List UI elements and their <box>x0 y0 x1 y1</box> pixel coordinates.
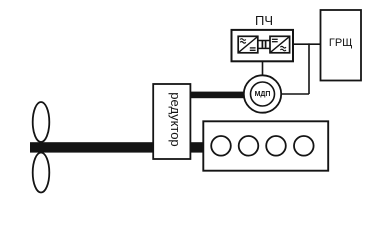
propeller blade upper <box>33 102 50 142</box>
inverter DC/AC <box>270 36 290 53</box>
propeller blade lower <box>33 153 50 193</box>
frequency converter ПЧ box <box>232 30 294 61</box>
svg-text:ГРЩ: ГРЩ <box>329 37 353 49</box>
propeller shaft <box>30 142 154 152</box>
engine cylinder 3 <box>266 136 286 156</box>
wire МДП to branch (horizontal) <box>281 93 309 95</box>
shaft gearbox to motor MDP <box>190 92 244 99</box>
rectifier AC/DC <box>238 36 258 53</box>
engine cylinder 2 <box>239 136 259 156</box>
wire branch vertical to ГРЩ feeder <box>308 43 310 94</box>
wire ПЧ to МДП <box>262 61 264 76</box>
main switchboard ГРЩ <box>321 10 362 81</box>
gearbox редуктор <box>153 84 190 159</box>
shaft gearbox to engine <box>190 142 204 152</box>
engine <box>203 121 328 170</box>
svg-text:ПЧ: ПЧ <box>255 13 273 28</box>
engine cylinder 1 <box>211 136 231 156</box>
svg-text:редуктор: редуктор <box>168 92 183 146</box>
wire ПЧ to ГРЩ <box>293 43 321 45</box>
motor МДП <box>244 75 281 112</box>
DC link capacitor plates <box>262 41 265 48</box>
svg-text:МДП: МДП <box>255 91 271 98</box>
engine cylinder 4 <box>294 136 314 156</box>
DC link rails <box>258 41 270 49</box>
